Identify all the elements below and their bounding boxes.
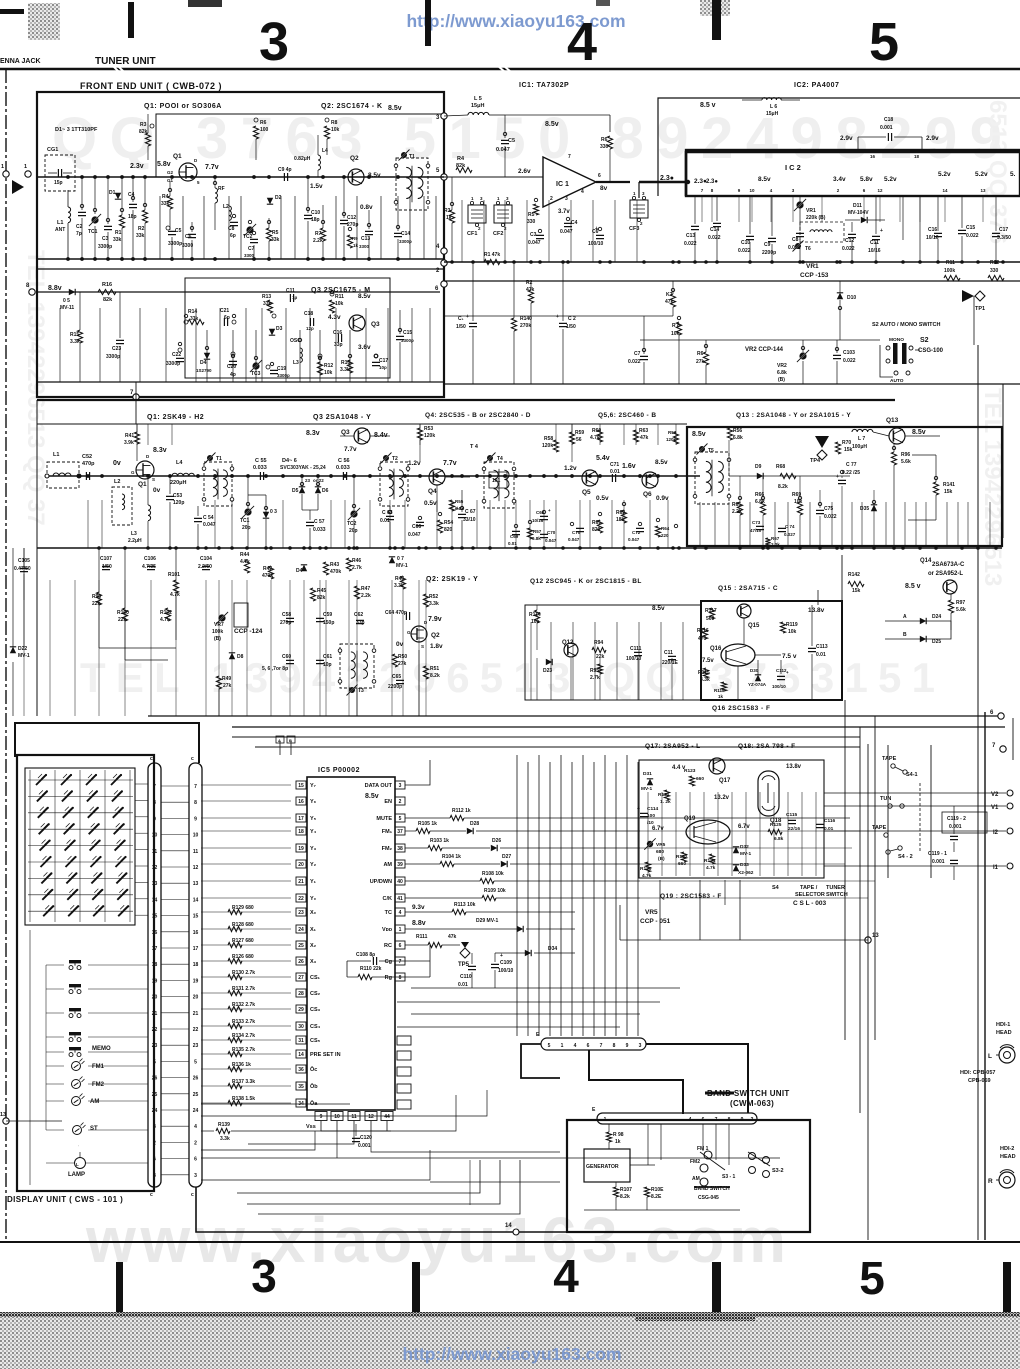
svg-text:5.6k: 5.6k — [956, 607, 966, 613]
svg-text:L 6: L 6 — [770, 104, 777, 110]
capacitor C3 — [104, 226, 112, 229]
transformer T1 front-end — [396, 158, 428, 210]
svg-text:6: 6 — [153, 1157, 156, 1163]
junction dots ic2 bus — [450, 260, 454, 264]
svg-text:L3: L3 — [293, 360, 299, 366]
svg-text:T1: T1 — [409, 154, 415, 160]
svg-text:B: B — [903, 632, 907, 638]
wire vertical node7 — [135, 382, 137, 424]
capacitor C18 ic2 — [888, 133, 891, 141]
svg-text:1/50: 1/50 — [102, 564, 112, 570]
svg-text:FM2: FM2 — [690, 1159, 700, 1165]
svg-text:CCP -124: CCP -124 — [234, 628, 263, 635]
wire bus y384 — [444, 383, 1020, 385]
svg-text:R122: R122 — [676, 854, 688, 860]
svg-text:R49: R49 — [222, 676, 231, 682]
svg-text:0.022: 0.022 — [842, 246, 855, 252]
svg-text:2.3●: 2.3● — [706, 179, 718, 185]
cut marks top frame — [113, 66, 124, 72]
capacitor C5 ic1 — [501, 140, 509, 143]
svg-text:VR1: VR1 — [806, 263, 819, 270]
svg-text:2.6v: 2.6v — [518, 168, 531, 175]
svg-text:T6: T6 — [805, 246, 811, 252]
svg-text:Ōc: Ōc — [310, 1066, 317, 1073]
svg-text:6.8k: 6.8k — [733, 435, 743, 441]
resistor R56 — [727, 428, 732, 440]
resistor R4 ic1 — [456, 167, 472, 172]
svg-text:C13: C13 — [686, 233, 695, 239]
svg-text:C23: C23 — [112, 346, 121, 352]
inductor L7 — [852, 429, 873, 432]
svg-text:101: 101 — [492, 478, 501, 484]
wire bundle horizontals right — [640, 830, 860, 832]
switch push 3 — [69, 1008, 81, 1011]
resistor R53 — [417, 428, 422, 440]
svg-text:D32: D32 — [740, 844, 749, 850]
node I2 — [1007, 828, 1013, 834]
trimmer TC1 mid — [244, 508, 251, 515]
capacitor C108 — [373, 957, 376, 965]
trimmer TC2 — [246, 226, 253, 233]
svg-text:CF1: CF1 — [467, 231, 477, 237]
svg-text:3300p: 3300p — [106, 354, 120, 360]
wire bottom nested 4 — [258, 1160, 520, 1214]
svg-text:IC1: TA7302P: IC1: TA7302P — [519, 82, 569, 89]
svg-text:1. 2k: 1. 2k — [660, 799, 671, 805]
diode D32 — [733, 847, 739, 853]
svg-text:R142: R142 — [848, 572, 860, 578]
svg-text:33k: 33k — [190, 316, 199, 322]
ic5 pin 14 PRE SET IN — [296, 1050, 306, 1058]
junction dots front-end bus — [66, 175, 70, 179]
svg-text:5: 5 — [194, 1059, 197, 1065]
svg-text:R12: R12 — [324, 363, 333, 369]
svg-text:Q2: 2SC1674 - K: Q2: 2SC1674 - K — [321, 103, 383, 110]
svg-text:19: 19 — [298, 846, 304, 852]
capacitor C3 ic1 — [536, 235, 544, 238]
resistor R136 — [228, 1066, 242, 1071]
lamp — [75, 1158, 86, 1169]
svg-text:UP/DWN: UP/DWN — [370, 879, 392, 885]
bottom tick 1 — [116, 1262, 123, 1312]
svg-text:35: 35 — [298, 1084, 304, 1090]
svg-text:2.2k: 2.2k — [313, 238, 323, 244]
svg-text:5: 5 — [869, 12, 899, 72]
svg-text:Q17: Q17 — [719, 778, 731, 784]
svg-text:(B): (B) — [778, 377, 785, 383]
resistor R2 — [142, 210, 147, 223]
svg-text:100/10: 100/10 — [772, 684, 786, 689]
resistor R107 — [613, 1187, 618, 1197]
svg-text:Q4: Q4 — [428, 488, 437, 495]
ic5 pin 4 TC — [395, 908, 405, 916]
ic IC2 box — [686, 150, 1020, 196]
svg-text:MV-1: MV-1 — [641, 786, 653, 792]
resistor R51 — [423, 666, 428, 679]
wire staircase horizontals — [411, 987, 680, 989]
svg-text:2.2k: 2.2k — [732, 509, 742, 515]
svg-text:CF3: CF3 — [629, 226, 639, 232]
svg-text:2.3●: 2.3● — [660, 175, 674, 182]
svg-text:21: 21 — [152, 1011, 158, 1017]
wire long bus y727 — [232, 726, 1005, 728]
svg-text:1: 1 — [1, 164, 4, 170]
svg-text:ENNA JACK: ENNA JACK — [0, 58, 41, 65]
svg-text:S3 - 1: S3 - 1 — [722, 1174, 736, 1180]
svg-text:+: + — [466, 314, 469, 320]
wire long bus y747 — [255, 746, 860, 748]
capacitor C14 bold — [713, 223, 721, 226]
diode D3 mid — [263, 512, 269, 518]
svg-text:4.7k: 4.7k — [240, 559, 250, 565]
svg-text:0.001: 0.001 — [358, 1143, 371, 1149]
svg-text:ˈ: ˈ — [78, 1144, 79, 1149]
capacitor C54 — [194, 518, 202, 521]
ic5 pin 23 X₀ — [296, 908, 306, 916]
transformer T5 — [695, 452, 729, 504]
svg-text:R57: R57 — [533, 529, 542, 534]
ic5 pin 17 Y₅ — [296, 814, 306, 822]
svg-text:11: 11 — [193, 849, 199, 855]
svg-text:X₀: X₀ — [310, 910, 317, 916]
svg-text:36: 36 — [298, 1067, 304, 1073]
resistor R102 — [165, 608, 170, 621]
node 14 — [513, 1229, 519, 1235]
wire bottom nested 3 — [247, 1160, 500, 1204]
svg-text:5.8v: 5.8v — [860, 176, 873, 183]
node V1 — [1007, 803, 1013, 809]
svg-text:0.5v: 0.5v — [596, 495, 609, 502]
svg-text:3: 3 — [399, 783, 402, 789]
svg-text:7.5 v: 7.5 v — [782, 653, 797, 660]
trimmer TC3 — [252, 362, 259, 369]
svg-text:D4: D4 — [200, 360, 207, 366]
svg-text:C12: C12 — [347, 215, 356, 221]
svg-text:R94: R94 — [594, 640, 603, 646]
svg-text:13: 13 — [872, 933, 879, 939]
capacitor C55 — [260, 472, 263, 480]
svg-text:ST: ST — [90, 1126, 98, 1132]
svg-text:C15: C15 — [403, 330, 412, 336]
svg-text:33k: 33k — [263, 301, 272, 307]
svg-text:R8: R8 — [331, 120, 338, 126]
inductor L2 — [229, 206, 231, 220]
svg-text:40: 40 — [397, 879, 403, 885]
capacitor CG1 — [45, 155, 75, 191]
wire ic5 right loop — [429, 945, 431, 977]
svg-text:11: 11 — [152, 849, 158, 855]
pot VR7 — [218, 614, 225, 621]
svg-text:3: 3 — [194, 1173, 197, 1179]
svg-text:C73: C73 — [752, 520, 761, 525]
transformer T2 — [380, 462, 408, 506]
svg-text:R46: R46 — [352, 558, 361, 564]
switch push 2 — [69, 984, 81, 987]
wire bus row2 — [37, 291, 440, 293]
svg-text:+: + — [880, 228, 883, 234]
svg-text:0.22 /25: 0.22 /25 — [842, 470, 860, 476]
capacitor C13 — [365, 231, 373, 234]
diode D27 — [501, 861, 507, 867]
svg-text:R138 1.5k: R138 1.5k — [232, 1096, 255, 1102]
svg-text:6: 6 — [194, 1157, 197, 1163]
svg-text:15: 15 — [152, 914, 158, 920]
diode D2 — [267, 198, 273, 204]
wire q-row verticals to ground — [87, 500, 89, 548]
trimmer TC1 — [91, 216, 98, 223]
svg-text:8.5 v: 8.5 v — [700, 102, 716, 109]
ic5 pin 20 Y₂ — [296, 860, 306, 868]
ic5 pin 29 CS₃ — [296, 1005, 306, 1013]
svg-text:1p: 1p — [292, 295, 298, 300]
node pin 4 — [441, 248, 447, 254]
top-left hatch blob — [28, 3, 60, 40]
svg-text:CS₂: CS₂ — [310, 991, 321, 997]
svg-text:D1~ 3 1TT310PF: D1~ 3 1TT310PF — [55, 127, 98, 133]
resistor R62 — [621, 510, 626, 523]
diode D5 mv-11 — [69, 289, 75, 295]
svg-text:R1 47k: R1 47k — [484, 252, 500, 258]
svg-text:330: 330 — [600, 144, 609, 150]
resistor R1 — [119, 215, 124, 228]
ic5 pin 8 Rg — [395, 973, 405, 981]
svg-text:FM2: FM2 — [92, 1082, 105, 1088]
svg-text:2SA673A-C: 2SA673A-C — [932, 562, 965, 568]
test point TP5 — [460, 948, 470, 958]
svg-text:82k: 82k — [103, 297, 113, 303]
svg-text:8: 8 — [194, 800, 197, 806]
svg-text:3: 3 — [251, 1250, 277, 1302]
svg-text:R110 22k: R110 22k — [360, 966, 382, 972]
svg-text:10/16: 10/16 — [868, 248, 881, 254]
svg-text:C7: C7 — [248, 246, 255, 252]
svg-text:R128 680: R128 680 — [232, 922, 254, 928]
junction dots q-row bus — [77, 474, 81, 478]
capacitor C112 — [777, 676, 785, 679]
svg-text:820: 820 — [444, 527, 453, 533]
svg-text:R41: R41 — [125, 433, 134, 439]
svg-text:0.001: 0.001 — [932, 859, 945, 865]
svg-text:Rg: Rg — [385, 975, 392, 981]
svg-text:3300p: 3300p — [166, 361, 180, 367]
capacitor C72 — [636, 528, 644, 531]
svg-text:+: + — [836, 474, 839, 480]
svg-text:8.2k: 8.2k — [620, 1194, 630, 1200]
svg-text:4: 4 — [399, 910, 402, 916]
wire t3 bottom — [356, 688, 358, 716]
svg-text:0.001: 0.001 — [949, 824, 962, 830]
svg-text:0.022: 0.022 — [738, 248, 751, 254]
svg-text:25: 25 — [152, 1092, 158, 1098]
transistor Q2 2sk19 — [411, 626, 427, 642]
resistor R3 ic1 — [449, 210, 454, 223]
capacitor C10 — [304, 215, 312, 218]
resistor R121 — [664, 790, 669, 800]
svg-text:D30: D30 — [750, 668, 759, 673]
svg-text:Q12: Q12 — [562, 640, 574, 646]
svg-text:1: 1 — [399, 927, 402, 933]
svg-text:TAPE /: TAPE / — [800, 885, 818, 891]
ic5 pin 21 Y₁ — [296, 877, 306, 885]
diode D4 mid — [301, 565, 307, 571]
svg-text:33k: 33k — [161, 201, 170, 207]
svg-text:R129 680: R129 680 — [232, 905, 254, 911]
svg-text:330: 330 — [527, 219, 536, 225]
svg-text:8.4v: 8.4v — [374, 432, 388, 439]
svg-text:C61: C61 — [323, 654, 332, 660]
wire bottom nested 2 — [237, 1160, 480, 1193]
svg-text:Q1: 2SK49 - H2: Q1: 2SK49 - H2 — [147, 414, 204, 421]
svg-text:6: 6 — [399, 943, 402, 949]
resistor R41 — [134, 432, 139, 444]
svg-text:33k: 33k — [271, 237, 280, 243]
capacitor C4 — [129, 204, 137, 207]
svg-text:10: 10 — [334, 1114, 340, 1120]
wire ic1 out thick — [596, 181, 630, 183]
svg-text:HDI-2: HDI-2 — [1000, 1146, 1014, 1152]
svg-text:C 2: C 2 — [568, 316, 576, 322]
wire right edge box — [984, 712, 986, 1240]
svg-text:27k: 27k — [696, 359, 705, 365]
svg-text:2200p: 2200p — [388, 684, 402, 690]
svg-text:8.5v: 8.5v — [912, 429, 926, 436]
svg-text:3300p: 3300p — [277, 373, 290, 378]
svg-text:4.7k: 4.7k — [590, 435, 600, 441]
resistor R14 — [188, 319, 204, 324]
svg-text:D22: D22 — [18, 646, 27, 652]
svg-text:D10: D10 — [847, 295, 856, 301]
wire q15 q12 verticals extra — [530, 622, 532, 700]
svg-text:C103: C103 — [843, 350, 855, 356]
top smudge mark — [188, 0, 222, 7]
svg-text:15: 15 — [298, 783, 304, 789]
svg-text:8.5v: 8.5v — [652, 605, 665, 612]
svg-text:R116: R116 — [697, 628, 709, 634]
wire ic5 bottom — [321, 1121, 391, 1131]
svg-text:C11: C11 — [664, 650, 673, 656]
svg-text:D8: D8 — [237, 654, 244, 660]
svg-text:13: 13 — [193, 881, 199, 887]
svg-text:2: 2 — [550, 196, 553, 202]
svg-text:C65: C65 — [392, 674, 401, 680]
svg-text:TUN: TUN — [880, 796, 891, 802]
svg-text:C71: C71 — [610, 462, 619, 468]
resistor R48 — [400, 576, 405, 589]
svg-text:TC: TC — [385, 910, 392, 916]
arrow input — [12, 180, 24, 194]
svg-text:6.8k: 6.8k — [532, 536, 541, 541]
svg-text:SELECTOR: SELECTOR — [795, 892, 825, 898]
resistor R115 — [703, 668, 708, 678]
svg-text:TUNER: TUNER — [826, 885, 845, 891]
box tape selector — [887, 745, 889, 878]
svg-text:13.8v: 13.8v — [786, 764, 802, 770]
resistor R137 — [228, 1083, 242, 1088]
svg-text:10k: 10k — [788, 629, 797, 635]
transistor Q16 oval — [721, 644, 755, 666]
box display unit — [17, 755, 154, 1191]
resistor R42 — [268, 566, 273, 579]
resistor R45 — [310, 588, 315, 601]
resistor R60 — [597, 430, 602, 442]
svg-text:3300: 3300 — [244, 253, 255, 258]
svg-text:+: + — [595, 226, 598, 232]
svg-text:R7: R7 — [315, 231, 322, 237]
svg-text:0.033: 0.033 — [253, 465, 267, 471]
resistor R5 ic1 — [533, 204, 538, 215]
svg-text:220μH: 220μH — [170, 480, 187, 486]
svg-text:C72: C72 — [632, 530, 641, 535]
svg-text:0.047: 0.047 — [545, 538, 557, 543]
svg-text:24: 24 — [298, 927, 304, 933]
diode D26 — [491, 845, 497, 851]
top tick 3 — [700, 0, 730, 16]
capacitor C56 — [343, 472, 346, 480]
svg-text:R140: R140 — [520, 316, 532, 322]
top frame line — [0, 68, 1020, 71]
svg-text:T5: T5 — [708, 448, 714, 454]
svg-text:C2: C2 — [76, 224, 83, 230]
wire matrix to strip — [135, 783, 148, 785]
svg-text:14: 14 — [942, 188, 948, 193]
svg-text:23: 23 — [152, 1043, 158, 1049]
wire q13 row — [729, 475, 850, 477]
capacitor C6 — [188, 234, 196, 237]
capacitor C58 — [286, 618, 294, 621]
svg-text:1.8v: 1.8v — [430, 643, 443, 650]
svg-text:26: 26 — [298, 959, 304, 965]
resistor R129 — [228, 909, 242, 914]
svg-text:33p: 33p — [356, 620, 365, 626]
resistor R70 — [835, 442, 840, 454]
svg-text:4.7k: 4.7k — [642, 873, 652, 879]
svg-text:0.82μH: 0.82μH — [294, 156, 311, 162]
svg-text:24: 24 — [193, 1108, 199, 1114]
svg-text:19: 19 — [193, 978, 199, 984]
svg-text:C 77: C 77 — [846, 462, 857, 468]
resistor R16 — [98, 289, 116, 294]
ic5 pin 16 Y₆ — [296, 797, 306, 805]
capacitor C2 1/50 — [559, 323, 567, 326]
node 7 — [133, 394, 139, 400]
capacitor C73 — [756, 526, 764, 529]
resistor R46 — [346, 558, 351, 571]
svg-text:5: 5 — [859, 1252, 885, 1304]
svg-text:S2: S2 — [920, 337, 929, 344]
svg-text:or 2SA952-L: or 2SA952-L — [928, 571, 963, 577]
resistor R53b 120k — [673, 432, 678, 444]
resistor R69 — [797, 502, 802, 515]
svg-text:0.047: 0.047 — [203, 522, 216, 528]
svg-text:R4: R4 — [162, 194, 169, 200]
svg-text:8.8v: 8.8v — [48, 285, 62, 292]
svg-text:3.7v: 3.7v — [558, 209, 570, 215]
ceramic inner 101 — [489, 472, 507, 488]
wire tape box stub — [724, 880, 726, 905]
wire bottom rows strip — [201, 1103, 350, 1105]
svg-text:D29 MV-1: D29 MV-1 — [476, 918, 498, 924]
svg-text:MUTE: MUTE — [376, 816, 392, 822]
svg-text:CS₅: CS₅ — [310, 1038, 321, 1044]
svg-text:R111: R111 — [416, 934, 428, 940]
svg-text:8.3v: 8.3v — [306, 430, 320, 437]
diode D34 — [525, 950, 531, 956]
svg-text:LAMP: LAMP — [68, 1172, 85, 1178]
wire k7 r140 row — [444, 315, 673, 317]
svg-text:6.8k: 6.8k — [774, 836, 784, 842]
svg-text:14: 14 — [193, 897, 199, 903]
svg-text:T2: T2 — [392, 456, 398, 462]
